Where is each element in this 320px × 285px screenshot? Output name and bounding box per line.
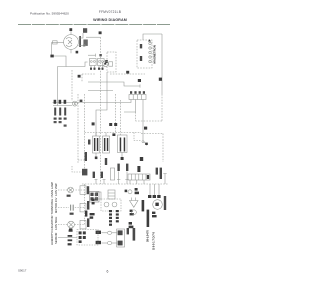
dashed corner x162 y121 bbox=[136, 120, 163, 122]
fan wire left bbox=[58, 224, 68, 226]
svg-text:HUMIDITY: HUMIDITY bbox=[50, 232, 54, 245]
humidity label block bbox=[50, 232, 58, 245]
tiny label x80 bbox=[80, 100, 83, 102]
relay stub tips bbox=[90, 68, 104, 70]
relay stub 3 bbox=[98, 66, 100, 71]
dashed drop x115 bbox=[115, 94, 117, 133]
svg-text:MAGNETRON: MAGNETRON bbox=[153, 45, 157, 63]
hv diode block bbox=[83, 40, 87, 46]
interlock 2 text bbox=[104, 138, 108, 151]
main vertical dashed wire bbox=[100, 37, 102, 184]
magnetron contact 5 bbox=[149, 60, 151, 62]
terminal pin 2 bbox=[59, 108, 61, 116]
entry mark 3 bbox=[64, 100, 67, 104]
vert label col x142 bbox=[142, 200, 145, 211]
fan motor top terminal bbox=[70, 31, 72, 35]
label 13 blob bbox=[126, 71, 129, 74]
bottom terminal stub bbox=[70, 49, 72, 53]
page background bbox=[0, 0, 218, 285]
svg-text:S9017: S9017 bbox=[18, 269, 27, 273]
CN1 wire 1 bbox=[124, 100, 131, 103]
tt right box bbox=[80, 203, 86, 212]
label below switch bbox=[140, 157, 143, 161]
wire label blob c bbox=[114, 123, 117, 126]
label cluster AH bbox=[135, 188, 139, 194]
sensor plug dashed box bbox=[77, 229, 98, 245]
stub P1 label bbox=[93, 172, 95, 178]
svg-text:58-L0470: 58-L0470 bbox=[146, 230, 150, 242]
tt motor label lines bbox=[50, 197, 58, 214]
flat box wire 1 bbox=[129, 180, 131, 184]
thermostat row 2 body bbox=[118, 241, 123, 246]
wire circle to hv bbox=[78, 33, 83, 38]
entry mark 2 bbox=[59, 100, 62, 104]
drop wires to pin bar bbox=[150, 184, 159, 195]
wire left drop bbox=[51, 43, 53, 56]
stub P4 bbox=[117, 172, 120, 185]
right bus dashed bbox=[161, 94, 163, 121]
plug bars bbox=[71, 205, 74, 211]
interlock switch 2 box bbox=[103, 136, 110, 153]
dashed vertical x78 bbox=[77, 94, 79, 163]
dashed jog y160 bbox=[78, 159, 85, 161]
label blob y80 bbox=[138, 79, 141, 82]
fan motor vert label bbox=[164, 196, 166, 210]
terminal labels row2 bbox=[54, 121, 67, 127]
thermostat row 1 label bbox=[96, 231, 101, 234]
node blob left bbox=[78, 75, 81, 78]
relay RY2 contacts bbox=[98, 61, 100, 63]
pcb crystal box bbox=[96, 192, 101, 199]
stub P2 bbox=[103, 180, 106, 185]
fan motor left terminal wire bbox=[52, 42, 64, 44]
dashed drop x72 bbox=[71, 70, 73, 101]
left terminal bar bbox=[53, 105, 72, 107]
sensor plug pins bbox=[79, 231, 86, 243]
left label 1M bbox=[88, 140, 90, 145]
x107 drop to y102 bbox=[106, 82, 108, 103]
sensor wire bbox=[58, 236, 77, 238]
dashed branch y74 right bbox=[110, 73, 145, 75]
main vertical x142 bbox=[142, 100, 144, 141]
left W vertical label bbox=[85, 211, 87, 217]
svg-text:FFMV0721LB: FFMV0721LB bbox=[99, 10, 121, 14]
fan motor lower cross bbox=[69, 222, 74, 227]
bus junction blob bbox=[112, 133, 115, 136]
magnetron top wire bbox=[143, 34, 162, 40]
monitor switch text b bbox=[124, 138, 126, 152]
buzzer circle bbox=[132, 210, 137, 215]
vertical x107 bbox=[106, 72, 108, 82]
relay RY1 box bbox=[90, 59, 97, 66]
pcb connector strip CN1 bbox=[129, 95, 146, 100]
bottom terminal blob bbox=[76, 51, 79, 54]
svg-text:Publication No. 5995544620: Publication No. 5995544620 bbox=[30, 12, 69, 16]
lamp tiny label bbox=[67, 195, 71, 197]
magnetron contact 4 bbox=[149, 56, 151, 58]
wire horizontal y55 bbox=[88, 54, 96, 56]
magnetron pin labels bbox=[140, 44, 142, 48]
transformer core bar bbox=[79, 36, 81, 47]
wire circle lower to hv bbox=[78, 45, 83, 47]
ah label bottom bbox=[129, 222, 134, 228]
svg-text:OVEN LAMP: OVEN LAMP bbox=[50, 182, 54, 198]
right bus solid bbox=[161, 34, 163, 94]
svg-text:120V 60Hz: 120V 60Hz bbox=[54, 216, 58, 230]
svg-text:6: 6 bbox=[107, 270, 109, 274]
buzzer labels bbox=[130, 210, 134, 216]
thermostat row 1 body bbox=[118, 230, 123, 235]
fan right box bbox=[80, 220, 86, 229]
fan vertical label right bbox=[87, 218, 89, 227]
relay label blob bbox=[105, 60, 108, 63]
flat box dividers bbox=[132, 174, 146, 180]
inline fuse F1 bbox=[53, 41, 58, 44]
monitor switch box bbox=[118, 135, 128, 153]
fan label lines bbox=[50, 216, 58, 232]
label 2 over flat box bbox=[137, 166, 140, 172]
svg-text:S9017D70: S9017D70 bbox=[152, 231, 156, 250]
right label col 2 bbox=[160, 168, 162, 179]
door switch blade bbox=[144, 141, 148, 146]
thermal cutout dot bbox=[104, 63, 106, 65]
bus y90 bbox=[88, 90, 113, 92]
svg-text:MOTOR 21V: MOTOR 21V bbox=[54, 197, 58, 213]
magnetron contact 2 bbox=[149, 47, 151, 49]
CN1 dividers bbox=[133, 95, 141, 100]
wire label blob b bbox=[109, 123, 112, 126]
lamp right box bbox=[80, 186, 86, 195]
fan tiny label bbox=[69, 230, 73, 232]
pin bar row bbox=[148, 195, 161, 198]
lamp right label bbox=[87, 186, 89, 194]
oven lamp cross bbox=[69, 188, 73, 192]
thermostat outline box bbox=[117, 229, 125, 247]
CN1 pin labels bbox=[130, 91, 145, 94]
sensor comp marks bbox=[68, 228, 73, 245]
latch sw outline bbox=[110, 168, 114, 180]
interlock 1 tail bbox=[95, 153, 97, 157]
relay stub 2 bbox=[94, 66, 96, 71]
tt vertical label right bbox=[87, 201, 89, 210]
thermal cutout body bbox=[109, 62, 113, 66]
small circle comp bbox=[128, 190, 132, 194]
thermostat row 1 wire b bbox=[112, 232, 117, 234]
wire to lower bus bbox=[54, 56, 66, 67]
stub P1 bbox=[95, 180, 98, 185]
label FA bbox=[99, 31, 102, 34]
flat box wire 2 bbox=[136, 180, 138, 184]
label blob y191 bbox=[125, 190, 128, 193]
magnetron contact 1 bbox=[149, 42, 151, 44]
ni vert label bbox=[127, 228, 129, 234]
flat connector box bbox=[128, 174, 150, 180]
vert label col x147 bbox=[147, 210, 150, 227]
tt wire right bbox=[75, 207, 85, 209]
terminal pin 1 bbox=[54, 108, 56, 116]
door switch label bbox=[145, 143, 148, 145]
svg-text:SENSOR: SENSOR bbox=[54, 233, 58, 244]
hv fan motor circle bbox=[153, 200, 163, 210]
hv fan labels bbox=[152, 212, 157, 218]
tco circle on bar bbox=[72, 101, 77, 106]
top rule bbox=[18, 24, 170, 26]
relay stub 1 bbox=[90, 66, 92, 71]
flat box dark pin bbox=[147, 175, 149, 179]
tick end y86 bbox=[139, 84, 141, 87]
wire to F node bbox=[86, 36, 101, 38]
dashed corner left box bbox=[81, 74, 83, 82]
stub P3 label bbox=[105, 158, 107, 165]
svg-text:WIRING DIAGRAM: WIRING DIAGRAM bbox=[93, 18, 127, 22]
label 2 stack bbox=[92, 199, 95, 205]
ground branch dashed bbox=[72, 166, 82, 172]
wire label blob a bbox=[92, 122, 95, 125]
tt wire left bbox=[58, 207, 69, 209]
relay dashed box lower bbox=[101, 199, 121, 211]
thermostat row 2 wire b bbox=[112, 242, 117, 244]
thermostat row 2 wire bbox=[102, 242, 108, 244]
interlock 1 text bbox=[94, 138, 98, 151]
interlock 2 lead bbox=[105, 133, 107, 137]
thermostat row 1 wire bbox=[102, 232, 108, 234]
thermal cutout dashed box bbox=[107, 52, 116, 72]
relay lower contact 2 bbox=[112, 202, 117, 207]
buzzer triangle bbox=[130, 201, 139, 208]
magnetron arrow bbox=[148, 39, 151, 41]
CN1 wire 2 bbox=[124, 100, 136, 113]
left dashed drop x57 bbox=[57, 67, 59, 106]
hv capacitor block bbox=[83, 28, 87, 33]
right label col 1 bbox=[156, 168, 158, 175]
vertical dashed x84 lower bbox=[84, 184, 86, 225]
dashed branch y74 left bbox=[82, 73, 96, 75]
fan wire right bbox=[75, 224, 85, 226]
fan motor FM circle bbox=[64, 35, 79, 50]
svg-text:120V 25W: 120V 25W bbox=[54, 183, 58, 196]
stub P5 bbox=[125, 172, 128, 185]
wb label block bbox=[90, 213, 95, 219]
lamp wire left bbox=[58, 189, 69, 191]
svg-text:TURNTABLE: TURNTABLE bbox=[50, 199, 54, 215]
cn-a vertical label bbox=[85, 152, 87, 161]
relay stub 4 bbox=[102, 66, 104, 71]
thermostat row 2 oval bbox=[107, 241, 111, 244]
relay RY1 contacts bbox=[90, 61, 92, 63]
thermostat row 1 oval bbox=[107, 231, 111, 234]
right stub bbox=[163, 174, 166, 185]
interlock bus y132 bbox=[85, 132, 142, 134]
dashed vertical x84 bbox=[84, 94, 86, 172]
monitor switch text a bbox=[120, 138, 122, 152]
transformer hatch bbox=[108, 193, 115, 196]
dashed vertical x163 bbox=[162, 134, 164, 163]
magnetron contact 3 bbox=[149, 51, 151, 53]
pcb transformer box bbox=[108, 190, 115, 199]
fan motor winding arcs bbox=[66, 38, 72, 47]
tco hatch bbox=[74, 102, 76, 105]
oven lamp circle bbox=[68, 187, 74, 193]
main bus y184 bbox=[82, 183, 168, 185]
stub P5 label bbox=[126, 164, 128, 171]
dashed segment x135 bbox=[135, 112, 137, 121]
code col 1 bbox=[109, 210, 112, 226]
junction blob y55 bbox=[99, 54, 101, 56]
dashed drop x120 bbox=[120, 100, 122, 135]
monitor box tail bbox=[121, 153, 123, 158]
interlock 1 tail blob bbox=[95, 157, 98, 160]
door sw dashed sub box bbox=[134, 133, 141, 141]
node N blob bbox=[50, 55, 53, 58]
magnetron plug dashed box bbox=[137, 40, 152, 68]
relay RY2 box bbox=[98, 59, 105, 66]
fan motor lower circle bbox=[68, 221, 75, 228]
label GN blob right bbox=[159, 78, 162, 81]
oven lamp label lines bbox=[50, 182, 58, 198]
dashed line y133 bbox=[141, 133, 163, 135]
thermal cutout circle bbox=[102, 61, 108, 67]
relay lower contact 1 bbox=[104, 202, 109, 207]
step wire to interlock 1 bbox=[96, 103, 107, 137]
top terminal blob bbox=[69, 28, 72, 31]
stub P4 label bbox=[117, 164, 119, 171]
wire step with tick bbox=[66, 62, 88, 67]
terminal pin 3 bbox=[64, 108, 66, 116]
label x144 y128 bbox=[144, 127, 147, 130]
hv terminal circle bbox=[83, 44, 85, 46]
code col 2 bbox=[116, 210, 119, 222]
svg-text:FAN MOTOR: FAN MOTOR bbox=[50, 216, 54, 232]
monitor tail blob bbox=[121, 157, 124, 160]
terminal labels row1 bbox=[54, 118, 67, 120]
flat box wire 3 bbox=[143, 180, 145, 184]
entry mark 1 bbox=[54, 100, 57, 104]
long wire y102 bbox=[53, 102, 125, 104]
hv fan motor dot bbox=[155, 203, 158, 206]
ground connector block bbox=[82, 169, 87, 176]
terminal grid block bbox=[89, 192, 99, 203]
terminal tick bbox=[95, 54, 97, 57]
stub P2 label bbox=[101, 172, 103, 178]
bus y82 bbox=[88, 82, 140, 86]
buzzer leads bbox=[132, 198, 136, 201]
tt tiny label bbox=[70, 213, 74, 215]
lamp wire right bbox=[76, 189, 85, 191]
interlock 1 lead bbox=[95, 133, 97, 137]
thermostat row 2 label bbox=[96, 241, 101, 244]
interlock switch 1 box bbox=[93, 136, 100, 153]
vert label x133 bbox=[133, 228, 136, 241]
door switch contact bbox=[142, 141, 144, 143]
